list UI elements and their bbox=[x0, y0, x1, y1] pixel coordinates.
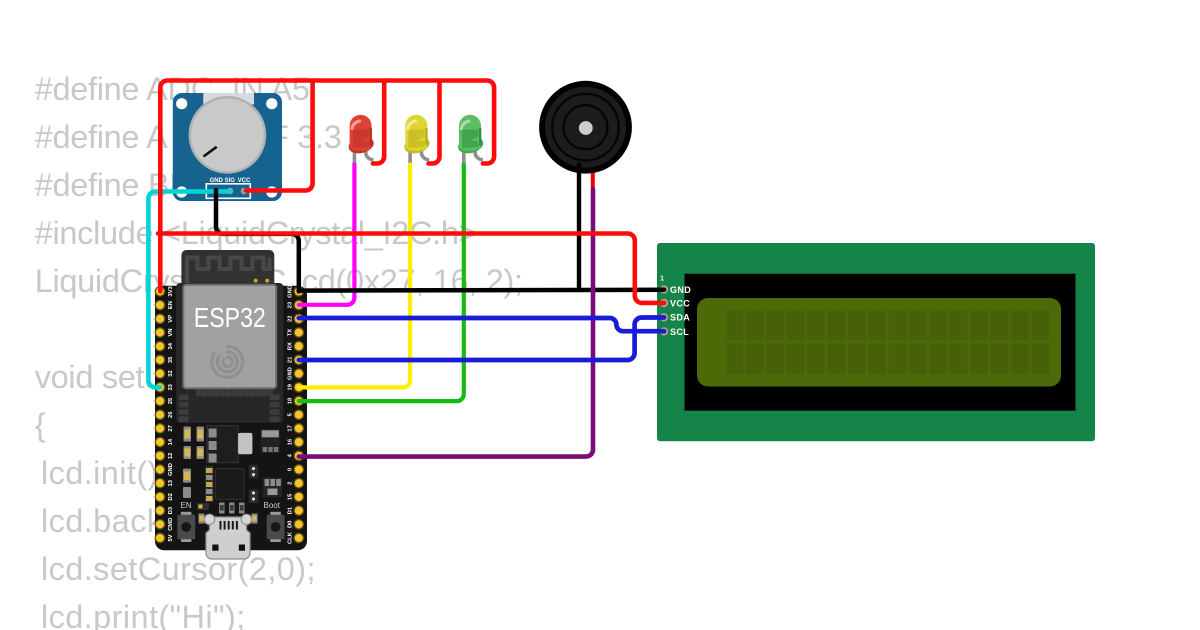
micro usb connector bbox=[206, 517, 250, 559]
pot pins bbox=[213, 188, 220, 195]
esp32 antenna meander bbox=[187, 258, 270, 284]
LED D1 red body bbox=[347, 115, 376, 156]
LCD character cells bbox=[726, 311, 1050, 374]
svg-text:D0: D0 bbox=[287, 521, 293, 528]
svg-text:2: 2 bbox=[287, 482, 293, 485]
esp32 module castellation bbox=[179, 390, 280, 423]
wire cyan pot SIG to ESP32 pin33 bbox=[148, 192, 230, 388]
esp32 antenna gold dots bbox=[254, 279, 258, 283]
LED D2 yellow legs bbox=[410, 146, 429, 164]
svg-text:19: 19 bbox=[287, 383, 293, 390]
svg-text:GND: GND bbox=[670, 285, 691, 295]
svg-text:GND: GND bbox=[287, 285, 293, 298]
svg-text:CLK: CLK bbox=[287, 531, 293, 544]
svg-text:27: 27 bbox=[168, 425, 174, 431]
wire red rail to LCD VCC bbox=[158, 234, 664, 303]
svg-text:35: 35 bbox=[168, 356, 174, 363]
svg-text:17: 17 bbox=[287, 425, 293, 431]
wire purple buzzer+ to ESP32 pin4 bbox=[299, 189, 593, 456]
cp2102 chip bbox=[216, 469, 245, 500]
pot pin box bbox=[206, 184, 250, 199]
small ic right bbox=[261, 429, 280, 453]
buzzer disk bbox=[539, 81, 632, 174]
svg-text:lcd.print("Hi");: lcd.print("Hi"); bbox=[41, 599, 246, 630]
voltage regulator bbox=[207, 426, 238, 463]
svg-text:GND: GND bbox=[287, 367, 293, 380]
left caps column bbox=[183, 469, 191, 483]
svg-text:{: { bbox=[35, 407, 46, 443]
svg-text:Boot: Boot bbox=[264, 501, 281, 510]
svg-text:VCC: VCC bbox=[670, 298, 690, 308]
esp32 pins right bbox=[294, 287, 303, 543]
LCD PCB bbox=[657, 243, 1095, 441]
svg-text:26: 26 bbox=[168, 411, 174, 418]
wire yellow LED D2 to ESP32 pin19 bbox=[299, 165, 410, 388]
wire magenta LED D1 to ESP32 pin23 bbox=[299, 165, 355, 305]
svg-text:lcd.init();: lcd.init(); bbox=[41, 455, 168, 491]
wire black buzzer to GND rail bbox=[577, 165, 581, 290]
svg-text:5V: 5V bbox=[168, 534, 174, 541]
svg-text:VN: VN bbox=[168, 328, 174, 336]
svg-text:ESP32: ESP32 bbox=[194, 302, 266, 333]
background code text bbox=[35, 71, 523, 630]
svg-text:D2: D2 bbox=[168, 493, 174, 500]
esp32 components bbox=[177, 426, 284, 559]
esp32 main board bbox=[155, 286, 307, 551]
pin headers small bbox=[249, 465, 258, 479]
capacitors top cluster bbox=[184, 427, 192, 442]
LED D3 green legs bbox=[464, 146, 483, 164]
esp32 pins left bbox=[155, 287, 164, 543]
svg-text:0: 0 bbox=[287, 468, 293, 471]
ESP32 board bbox=[155, 250, 307, 559]
svg-text:32: 32 bbox=[168, 370, 174, 376]
buzzer bbox=[539, 81, 632, 191]
pot PCB bbox=[173, 93, 282, 201]
svg-text:33: 33 bbox=[168, 383, 174, 390]
wire black pot GND to ESP32 GND bbox=[216, 190, 299, 291]
svg-text:EN: EN bbox=[181, 501, 192, 510]
LED D3 green body bbox=[456, 115, 485, 156]
svg-text:D3: D3 bbox=[168, 506, 174, 514]
LCD1602 module bbox=[657, 243, 1095, 441]
svg-text:15: 15 bbox=[287, 493, 293, 500]
LED D1 red legs bbox=[354, 146, 373, 164]
svg-text:21: 21 bbox=[287, 356, 293, 363]
pot knob bbox=[190, 97, 265, 172]
potentiometer bbox=[173, 93, 282, 201]
svg-text:#define A: #define A bbox=[35, 119, 168, 155]
pot pin labels bbox=[210, 178, 251, 184]
svg-text:12: 12 bbox=[168, 453, 174, 459]
buzzer leg positive bbox=[591, 155, 595, 191]
svg-text:EN: EN bbox=[168, 301, 174, 309]
svg-text:22: 22 bbox=[287, 316, 293, 322]
svg-text:SCL: SCL bbox=[670, 327, 689, 337]
EN button bbox=[181, 512, 192, 517]
svg-text:18: 18 bbox=[287, 397, 293, 404]
wire red 3V3 rail to LEDs bbox=[160, 81, 494, 292]
svg-text:GND: GND bbox=[168, 463, 174, 476]
pot knob indicator bbox=[204, 147, 217, 157]
wire red pot VCC to rail bbox=[246, 81, 313, 191]
wire blue ESP32 pin21 to LCD SDA bbox=[299, 318, 664, 361]
LCD pins bbox=[660, 285, 668, 335]
wire blue ESP32 pin22 to LCD SCL bbox=[299, 318, 664, 331]
svg-text:25: 25 bbox=[168, 397, 174, 404]
buzzer leg negative bbox=[577, 155, 581, 170]
three small caps row bbox=[219, 503, 225, 514]
pot mounting holes bbox=[176, 98, 187, 109]
svg-text:13: 13 bbox=[168, 479, 174, 486]
yellow caps beside usb bbox=[199, 514, 205, 524]
svg-text:lcd.setCursor(2,0);: lcd.setCursor(2,0); bbox=[41, 551, 316, 587]
esp32 wifi logo bbox=[212, 346, 243, 377]
svg-text:23: 23 bbox=[287, 301, 293, 308]
svg-text:TX: TX bbox=[287, 329, 293, 337]
svg-text:1: 1 bbox=[660, 274, 664, 283]
boot pad block bbox=[263, 478, 282, 498]
wire red anode LED D2 bbox=[429, 81, 440, 164]
esp32 shield bbox=[183, 285, 276, 389]
esp32 antenna bbox=[181, 250, 274, 290]
esp32 module bbox=[176, 283, 283, 423]
svg-text:D1: D1 bbox=[287, 506, 293, 514]
wire black ESP32 GND to LCD GND bbox=[299, 288, 664, 293]
Boot button bbox=[270, 512, 281, 517]
wire green LED D3 to ESP32 pin18 bbox=[299, 165, 464, 402]
svg-text:RX: RX bbox=[287, 342, 293, 350]
pot top band bbox=[203, 93, 254, 104]
svg-text:14: 14 bbox=[168, 438, 174, 445]
LCD screen bbox=[697, 298, 1061, 387]
svg-text:SDA: SDA bbox=[670, 313, 690, 323]
svg-text:34: 34 bbox=[168, 342, 174, 349]
esp32 pin labels bbox=[168, 285, 294, 544]
LCD bezel bbox=[685, 274, 1076, 411]
svg-text:CMD: CMD bbox=[168, 518, 174, 531]
svg-text:16: 16 bbox=[287, 438, 293, 445]
LCD pin labels bbox=[670, 285, 691, 337]
svg-text:VP: VP bbox=[168, 315, 174, 323]
wire red anode LED D1 bbox=[373, 81, 384, 164]
svg-text:3V3: 3V3 bbox=[168, 285, 174, 296]
LEDs bbox=[347, 115, 485, 164]
LED D2 yellow body bbox=[403, 115, 432, 156]
